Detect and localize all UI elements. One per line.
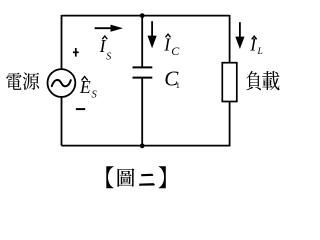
svg-text:I: I xyxy=(163,35,171,55)
svg-text:1: 1 xyxy=(176,80,180,90)
label 電源 (power source), char 電 xyxy=(6,73,21,90)
caption 【圖二】 (Figure 2), bracket 【 xyxy=(106,166,113,188)
label Ic (capacitor current phasor): I, hat, subscript C xyxy=(163,34,180,58)
svg-text:C: C xyxy=(171,44,180,58)
polarity minus sign xyxy=(76,108,85,110)
current arrow Is (rightward on top wire) xyxy=(95,25,123,32)
wire left vertical lower (source bottom to bottom-left corner) xyxy=(61,97,63,145)
node junction bottom (capacitor branch / bottom wire) xyxy=(140,143,145,148)
load box (rectangle) xyxy=(222,63,237,102)
node junction top (capacitor branch / top wire) xyxy=(140,13,145,18)
caption bracket 】 xyxy=(159,166,166,188)
current arrow IL (downward, load branch) xyxy=(235,22,244,49)
AC source sine symbol xyxy=(52,80,71,86)
wire bottom horizontal xyxy=(62,145,230,147)
label IL (load current phasor): I, hat, subscript L xyxy=(249,35,263,57)
wire left vertical upper (source top to top-left corner) xyxy=(61,15,63,69)
caption char 二 (two horizontal strokes, drawn) xyxy=(139,174,155,186)
wire right vertical upper (top-right corner to load) xyxy=(229,15,231,63)
label Es (source voltage phasor): E, hat, subscript S xyxy=(79,77,98,101)
polarity plus sign xyxy=(73,48,79,57)
caption char 圖 xyxy=(118,168,135,186)
capacitor C1 plates xyxy=(133,67,153,77)
label 負載 (load), char 負 xyxy=(246,71,261,90)
AC source Es circle xyxy=(48,69,76,97)
svg-text:E: E xyxy=(79,77,91,97)
label Is (source current phasor): I, hat, subscript S xyxy=(99,36,112,63)
wire right vertical lower (load to bottom-right corner) xyxy=(229,101,231,146)
wire top horizontal xyxy=(62,15,230,17)
svg-text:L: L xyxy=(257,47,263,57)
label 電源 (power source), char 源 xyxy=(23,73,40,90)
svg-text:S: S xyxy=(106,52,111,63)
svg-text:S: S xyxy=(92,90,98,101)
label 負載 (load), char 載 xyxy=(262,71,279,90)
wire middle branch lower (capacitor to bottom node) xyxy=(141,77,143,145)
current arrow Ic (downward, capacitor branch) xyxy=(148,21,157,48)
label C1 (capacitor value): C, subscript 1 xyxy=(164,67,180,91)
wire middle branch upper (top node to capacitor) xyxy=(141,16,143,68)
